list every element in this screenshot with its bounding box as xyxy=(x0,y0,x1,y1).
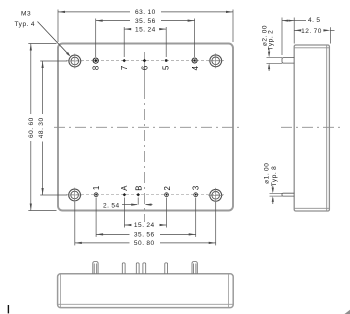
top pin row centerline xyxy=(66,60,225,62)
dim 12.70 xyxy=(294,28,334,35)
pin B xyxy=(136,193,140,196)
screw M3 bottom-right xyxy=(208,188,223,203)
svg-text:7: 7 xyxy=(120,66,129,70)
svg-text:M3: M3 xyxy=(21,11,31,18)
bottom view pin column 4 xyxy=(143,263,146,274)
svg-text:3: 3 xyxy=(191,186,200,190)
dim 48.30 left xyxy=(38,61,45,195)
svg-text:2: 2 xyxy=(163,186,172,190)
label dia 2.00 Typ.2 xyxy=(262,25,283,71)
side view extension lines top xyxy=(282,18,330,56)
pin 3 xyxy=(194,193,198,197)
side view bottom pin xyxy=(282,193,294,196)
pin 8 xyxy=(93,58,98,63)
bottom view pin column 2 xyxy=(122,263,125,274)
svg-text:A: A xyxy=(120,185,129,191)
dim 2.54 xyxy=(103,202,153,209)
svg-text:Typ. 8: Typ. 8 xyxy=(271,166,278,187)
horizontal centerline xyxy=(54,126,242,128)
dim 60.60 left xyxy=(28,44,35,211)
svg-text:15. 24: 15. 24 xyxy=(134,222,155,229)
label M3 Typ.4 xyxy=(15,11,71,57)
extension lines bottom xyxy=(75,198,216,246)
vertical centerline xyxy=(144,52,146,88)
extension lines top xyxy=(58,10,233,58)
pin 1 xyxy=(94,193,98,197)
svg-text:⌀1. 00: ⌀1. 00 xyxy=(264,163,271,184)
side view centerline xyxy=(281,126,341,128)
svg-text:63. 10: 63. 10 xyxy=(135,9,156,16)
dim 50.80 xyxy=(75,240,216,247)
bottom view body xyxy=(58,274,234,308)
bottom view pin column 6 wide xyxy=(192,262,197,274)
stray mark bottom-right xyxy=(345,310,350,314)
side view top pin xyxy=(282,58,294,64)
dim 4.5 xyxy=(282,17,321,24)
svg-text:48. 30: 48. 30 xyxy=(38,117,45,138)
svg-text:8: 8 xyxy=(92,66,101,70)
bottom view left inner line xyxy=(59,274,61,308)
side view top lip line xyxy=(294,47,329,49)
bottom view pin column 3 xyxy=(136,263,139,274)
front view body xyxy=(58,44,233,211)
screw M3 bottom-left xyxy=(67,188,82,203)
svg-text:2. 54: 2. 54 xyxy=(103,202,120,209)
extension lines left xyxy=(28,44,67,211)
svg-text:12. 70: 12. 70 xyxy=(301,28,322,35)
bottom view base inner line xyxy=(58,303,234,305)
bottom pin row centerline xyxy=(66,194,225,196)
pin 7 xyxy=(122,59,126,62)
svg-text:6: 6 xyxy=(140,66,149,70)
dim 15.24 top xyxy=(124,26,166,33)
pin 4 xyxy=(192,58,197,63)
pin 5 xyxy=(165,59,168,62)
side view body xyxy=(294,45,329,211)
svg-text:4: 4 xyxy=(191,65,200,70)
label dia 1.00 Typ.8 xyxy=(264,163,283,204)
dim 35.56 bottom xyxy=(96,232,196,239)
svg-text:35. 56: 35. 56 xyxy=(135,18,156,25)
side view base plate line xyxy=(326,45,328,211)
svg-text:5: 5 xyxy=(162,65,171,70)
svg-text:Typ. 4: Typ. 4 xyxy=(15,21,36,28)
svg-text:Typ. 2: Typ. 2 xyxy=(268,30,275,51)
svg-text:60. 60: 60. 60 xyxy=(28,117,35,138)
bottom view pin column 1 wide xyxy=(93,262,98,274)
stray mark bottom-left xyxy=(7,305,9,313)
screw M3 top-left xyxy=(67,54,82,69)
svg-text:35. 56: 35. 56 xyxy=(134,232,155,239)
dim 63.10 top xyxy=(58,9,233,16)
dim 15.24 bottom xyxy=(124,222,166,229)
pin 6 xyxy=(143,59,147,62)
svg-text:4. 5: 4. 5 xyxy=(308,17,321,24)
svg-text:50. 80: 50. 80 xyxy=(134,240,155,247)
screw M3 top-right xyxy=(208,53,223,68)
svg-text:15. 24: 15. 24 xyxy=(135,26,156,33)
bottom view right inner line xyxy=(228,274,230,308)
dim 35.56 top xyxy=(96,18,195,25)
svg-text:B: B xyxy=(134,186,143,191)
bottom view pin column 5 xyxy=(165,263,168,274)
svg-text:1: 1 xyxy=(92,186,101,190)
pin 2 xyxy=(165,193,169,197)
side view bottom lip line xyxy=(294,207,329,209)
pin A xyxy=(123,193,127,196)
